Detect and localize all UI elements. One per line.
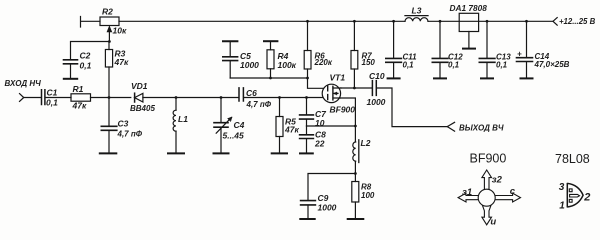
capacitor C8 xyxy=(306,126,308,134)
svg-text:5...45: 5...45 xyxy=(223,131,245,141)
junction source / C7-C8 node xyxy=(354,125,357,128)
capacitor C10 xyxy=(372,81,376,96)
svg-text:VD1: VD1 xyxy=(131,81,148,91)
R2 wiper arrow xyxy=(108,29,110,42)
ground bar (R4 top) xyxy=(264,40,277,42)
ground (R8) xyxy=(348,218,364,220)
svg-text:с: с xyxy=(510,186,516,197)
resistor R8 xyxy=(354,174,356,182)
svg-text:C1: C1 xyxy=(47,88,58,98)
inductor L2 xyxy=(353,142,356,161)
svg-text:100к: 100к xyxy=(278,60,297,70)
svg-text:и: и xyxy=(490,216,496,227)
svg-text:47,0×25В: 47,0×25В xyxy=(534,60,570,69)
svg-text:47к: 47к xyxy=(114,57,129,67)
junction rail C12 xyxy=(439,20,442,23)
junction R4 / bias line xyxy=(269,77,272,80)
svg-text:47к: 47к xyxy=(284,124,299,134)
pin arrow з1 (left) xyxy=(458,193,478,202)
junction R2 wiper / R3 / C2 xyxy=(108,40,111,43)
variable capacitor C4 xyxy=(220,98,222,123)
ground (DA1) xyxy=(463,48,475,50)
drain wire xyxy=(341,87,373,89)
svg-text:R2: R2 xyxy=(102,7,113,17)
svg-text:+12...25 В: +12...25 В xyxy=(559,17,596,26)
gate2 bias wire xyxy=(230,78,323,88)
capacitor C5 xyxy=(229,41,231,56)
svg-text:0,1: 0,1 xyxy=(496,61,508,70)
svg-text:0,1: 0,1 xyxy=(46,98,58,108)
regulator DA1 7808 xyxy=(459,13,478,31)
svg-text:0,1: 0,1 xyxy=(448,61,460,70)
wire C6 to gate 1 xyxy=(244,97,323,99)
svg-text:0,1: 0,1 xyxy=(403,61,415,70)
inductor L3 xyxy=(405,15,428,17)
svg-text:C9: C9 xyxy=(318,193,329,203)
capacitor C2 xyxy=(64,60,78,64)
svg-text:C10: C10 xyxy=(369,71,385,81)
junction C4 tap xyxy=(220,96,223,99)
ground (L1) xyxy=(168,152,184,154)
capacitor C7 xyxy=(306,98,308,115)
capacitor C11 xyxy=(393,21,395,58)
BF900 pinout diagram xyxy=(458,170,520,225)
pin arrow з2 (up) xyxy=(482,170,492,190)
input terminal xyxy=(20,94,24,102)
wire node to C9 xyxy=(308,174,355,201)
svg-text:C3: C3 xyxy=(118,119,129,129)
junction drain R7 xyxy=(353,87,356,90)
wire main line VD1 to C6 xyxy=(143,97,239,99)
capacitor C9 xyxy=(301,201,316,205)
ground bar (C5 top) xyxy=(223,40,237,42)
svg-text:22: 22 xyxy=(314,138,325,148)
svg-text:BF900: BF900 xyxy=(330,105,356,115)
ground (C12) xyxy=(434,77,446,79)
ground (C2) xyxy=(64,78,77,80)
pin arrow с (right) xyxy=(495,193,521,202)
svg-text:1000: 1000 xyxy=(318,203,337,213)
svg-text:C2: C2 xyxy=(80,51,91,61)
junction rail C13 xyxy=(486,20,489,23)
resistor R3 xyxy=(108,42,110,98)
source wire xyxy=(340,98,356,142)
capacitor C14 xyxy=(526,21,528,57)
svg-text:220к: 220к xyxy=(314,58,333,67)
svg-text:+: + xyxy=(517,50,522,59)
ground (R5) xyxy=(272,152,287,154)
svg-text:1: 1 xyxy=(559,200,565,211)
junction R5 tap xyxy=(278,96,281,99)
junction node A (R1/R3/C3/VD1) xyxy=(108,96,111,99)
diode VD1 xyxy=(134,93,136,102)
junction L1 tap xyxy=(175,96,178,99)
svg-text:100: 100 xyxy=(361,191,375,200)
junction rail C11 xyxy=(392,20,395,23)
+12..25V terminal xyxy=(553,18,557,26)
ground (C4) xyxy=(214,152,229,154)
svg-text:R1: R1 xyxy=(73,84,84,94)
svg-text:3: 3 xyxy=(559,182,565,193)
resistor R1 xyxy=(71,94,91,101)
svg-text:10: 10 xyxy=(315,118,325,128)
svg-text:1000: 1000 xyxy=(367,97,386,107)
junction rail R7 xyxy=(353,20,356,23)
svg-text:150: 150 xyxy=(362,58,376,67)
wire wiper to C2 xyxy=(71,42,110,59)
capacitor C13 xyxy=(486,21,488,58)
svg-text:ВВ405: ВВ405 xyxy=(130,104,155,113)
svg-text:з2: з2 xyxy=(492,174,503,185)
svg-text:VT1: VT1 xyxy=(330,73,346,83)
ground (C13) xyxy=(481,77,493,79)
svg-text:DA1 7808: DA1 7808 xyxy=(450,3,488,13)
svg-text:2: 2 xyxy=(583,192,590,204)
junction rail R6 xyxy=(306,20,309,23)
ground (C3) xyxy=(100,152,117,154)
junction C7 tap (gate 1) xyxy=(305,96,308,99)
resistor R5 xyxy=(279,98,281,117)
output wire xyxy=(377,88,448,127)
pin arrow и (down) xyxy=(482,206,492,225)
capacitor C1 xyxy=(42,90,45,105)
svg-text:L1: L1 xyxy=(178,114,188,124)
78L08 pinout diagram xyxy=(567,183,583,208)
ground (C9) xyxy=(300,218,314,220)
wire R1 to node A xyxy=(91,97,131,99)
svg-text:з1: з1 xyxy=(462,187,472,198)
svg-text:0,1: 0,1 xyxy=(80,61,92,71)
resistor R6 xyxy=(307,21,309,50)
transistor VT1 (dual-gate MOSFET) xyxy=(322,84,340,102)
svg-text:ВЫХОД ВЧ: ВЫХОД ВЧ xyxy=(459,124,504,133)
capacitor C12 xyxy=(439,21,441,58)
ground (C14) xyxy=(521,77,533,79)
ground (C8) xyxy=(300,152,313,154)
svg-text:BF900: BF900 xyxy=(470,152,507,166)
ground (C11) xyxy=(388,77,400,79)
junction source / C9 / R8 xyxy=(354,172,357,175)
output terminal xyxy=(447,122,454,131)
svg-text:L2: L2 xyxy=(361,138,371,148)
resistor R7 xyxy=(353,21,355,50)
inductor L1 xyxy=(175,98,177,111)
capacitor C6 xyxy=(239,88,243,101)
wire C7/C8 node to source line xyxy=(307,125,356,127)
svg-text:C6: C6 xyxy=(246,88,257,98)
BF900 body circle xyxy=(478,189,495,206)
junction rail C14 xyxy=(525,20,528,23)
svg-text:78L08: 78L08 xyxy=(555,152,590,166)
svg-text:4,7 пФ: 4,7 пФ xyxy=(246,100,272,109)
svg-text:L3: L3 xyxy=(412,6,422,16)
svg-text:1000: 1000 xyxy=(240,60,259,70)
top rail wire xyxy=(81,17,554,28)
svg-text:47к: 47к xyxy=(72,101,87,111)
svg-text:ВХОД НЧ: ВХОД НЧ xyxy=(5,79,42,88)
svg-text:4,7 пФ: 4,7 пФ xyxy=(117,130,143,139)
resistor R2 (potentiometer) xyxy=(100,17,119,26)
main input wire xyxy=(24,97,41,99)
junction R6 / bias line xyxy=(306,77,309,80)
svg-text:10к: 10к xyxy=(113,26,127,36)
svg-text:C4: C4 xyxy=(234,120,245,130)
resistor R4 xyxy=(270,41,272,50)
capacitor C3 xyxy=(108,98,110,126)
